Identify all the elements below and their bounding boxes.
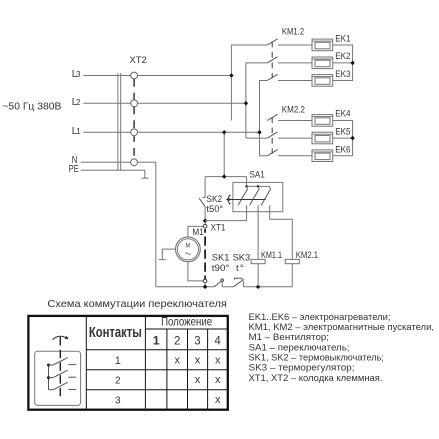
SA1 output lead 1: [205, 205, 247, 220]
table vertical divider switch/contacts: [85, 316, 87, 410]
svg-text:x: x: [215, 394, 221, 406]
svg-text:x: x: [175, 354, 181, 366]
svg-text:Контакты: Контакты: [89, 324, 142, 341]
contactor contact KM1.2-3: [267, 74, 312, 80]
legend text block: [249, 312, 435, 383]
svg-text:1: 1: [115, 355, 121, 367]
wire motor case to earth: [162, 249, 175, 259]
wire riser phase B: [246, 63, 267, 138]
node switch bus dot 2: [47, 376, 50, 379]
wire N: [81, 161, 131, 163]
SA1 input stub: [246, 177, 248, 187]
svg-text:KM1.1: KM1.1: [261, 250, 282, 260]
node rail coils junction: [256, 285, 261, 290]
wire riser phase A: [231, 45, 267, 121]
contactor contact KM2.2-2: [246, 132, 312, 138]
svg-text:EK1: EK1: [335, 34, 350, 44]
svg-text:2: 2: [174, 336, 180, 348]
svg-text:KM1, KM2 – электромагнитные: KM1, KM2 – электромагнитные пускатели,: [249, 322, 435, 332]
node L1-riser junction: [257, 130, 261, 135]
contactor contact KM1.2-2: [267, 57, 312, 63]
thermal switch SK1: [214, 279, 223, 287]
wire rail SK1-SK3: [222, 286, 233, 288]
svg-text:KM2.1: KM2.1: [296, 250, 318, 260]
svg-text:SK3: SK3: [233, 252, 251, 263]
svg-text:M1: M1: [192, 227, 203, 238]
contactor contact KM2.2-3: [260, 150, 313, 156]
PE earth bar: [141, 177, 148, 179]
wire rail right: [243, 286, 292, 288]
terminal block XT1 dashed link: [204, 229, 206, 279]
wire control top: [205, 176, 247, 178]
svg-text:XT2: XT2: [129, 55, 146, 66]
SA1 output lead 3: [270, 205, 293, 259]
wire bottom rail left: [156, 286, 214, 288]
SA1 common bus: [247, 186, 270, 188]
svg-text:3: 3: [115, 395, 121, 406]
node EK5 star junction: [350, 136, 354, 141]
wire XT1 bottom to rail: [204, 283, 206, 287]
svg-text:EK4: EK4: [335, 109, 350, 119]
svg-text:XT1, XT2 – колодка клеммная.: XT1, XT2 – колодка клеммная.: [249, 373, 383, 383]
svg-text:3: 3: [76, 70, 81, 79]
svg-text:EK6: EK6: [335, 144, 350, 154]
node control top junction: [222, 174, 226, 179]
wire star bus EK1-EK3: [333, 45, 353, 81]
svg-text:t90°: t90°: [212, 263, 230, 274]
svg-text:Положение: Положение: [161, 317, 212, 329]
table vertical divider col2/col3: [187, 329, 189, 410]
table horizontal divider under header: [86, 349, 228, 351]
table vertical divider col1/col2: [166, 329, 168, 410]
KM2.2 mechanical link dashed: [271, 117, 273, 154]
switch cell contact 3: [49, 382, 77, 389]
svg-text:t50°: t50°: [206, 204, 223, 215]
wire KM1.1 to rail: [257, 264, 259, 287]
svg-text:EK2: EK2: [335, 51, 350, 61]
table horizontal divider under Положение: [145, 328, 227, 330]
terminal XT2-3: [131, 129, 138, 136]
switch cell link dashed: [59, 337, 61, 398]
svg-text:SK1: SK1: [212, 252, 230, 263]
terminal XT2-4: [131, 159, 138, 166]
terminal XT1 top: [203, 224, 207, 228]
motor M1: [176, 237, 201, 262]
svg-text:PE: PE: [69, 164, 79, 175]
svg-text:4: 4: [214, 335, 221, 347]
heater EK3: [312, 75, 333, 87]
svg-text:3: 3: [194, 335, 200, 347]
node EK2 star junction: [350, 61, 354, 66]
terminal XT1 bottom: [203, 279, 207, 283]
svg-text:KM1.2: KM1.2: [282, 27, 304, 37]
svg-text:SK1, SK2 – термовыключатель;: SK1, SK2 – термовыключатель;: [249, 352, 385, 362]
svg-text:M1 – Вентилятор;: M1 – Вентилятор;: [249, 332, 330, 342]
wire riser phase C: [260, 81, 268, 156]
switch cell contact 1: [49, 358, 77, 365]
table row 2 x marks: [195, 374, 221, 386]
heater EK2: [312, 57, 333, 69]
SA1 contact 1 blade: [238, 188, 248, 205]
wire PE: [81, 170, 145, 178]
svg-text:t°: t°: [236, 263, 245, 274]
node L3-riser junction: [229, 73, 233, 78]
wire motor top to XT1: [188, 226, 203, 237]
KM1.2 mechanical link dashed: [271, 42, 273, 79]
svg-text:M: M: [186, 242, 191, 249]
table vertical divider contacts/positions: [144, 316, 146, 410]
switch cell contact 2: [49, 370, 77, 377]
svg-text:XT1: XT1: [211, 223, 226, 234]
svg-text:EK5: EK5: [335, 127, 350, 137]
node SA1 bus dot 2: [257, 185, 260, 188]
svg-text:2: 2: [76, 98, 81, 107]
node rail XT1 junction: [203, 285, 208, 290]
svg-text:SA1: SA1: [250, 170, 265, 181]
svg-text:1: 1: [153, 334, 160, 348]
SA1 actuator arc: [228, 195, 231, 205]
wire motor bottom to XT1: [188, 262, 203, 281]
motor earth bar: [159, 259, 166, 261]
svg-text:KM2.2: KM2.2: [282, 104, 305, 114]
svg-text:~50 Гц 380В: ~50 Гц 380В: [2, 102, 61, 113]
node SK2-XT1-SA1 junction: [203, 218, 208, 224]
svg-text:SA1 – переключатель;: SA1 – переключатель;: [249, 342, 350, 352]
panel boundary double line: [117, 73, 119, 171]
terminal XT2-1: [131, 72, 138, 79]
heater EK1: [312, 39, 333, 51]
svg-text:x: x: [195, 374, 201, 386]
thermostat SK3: [234, 278, 244, 287]
contactor contact KM2.2-1: [267, 114, 312, 120]
contactor contact KM1.2-1: [267, 39, 312, 45]
svg-text:x: x: [195, 354, 201, 366]
svg-text:EK1..EK6 – электронагревател: EK1..EK6 – электронагреватели;: [249, 312, 391, 322]
wire star bus EK4-EK6: [333, 121, 353, 156]
svg-text:Схема коммутации переключателя: Схема коммутации переключателя: [47, 299, 227, 310]
wire L2: [83, 102, 130, 104]
node L2-riser junction: [244, 101, 248, 106]
table row 1 x marks: [175, 354, 221, 366]
heater EK5: [312, 132, 333, 144]
node SA1 bus dot 1: [245, 185, 248, 188]
heater EK6: [312, 150, 333, 162]
switch SA1 box: [233, 182, 283, 211]
thermal switch SK2: [199, 177, 205, 219]
wire KM2.1 to rail: [291, 264, 293, 287]
terminal block XT2 dashed link: [133, 79, 135, 159]
svg-text:EK3: EK3: [335, 69, 350, 79]
table vertical divider col3/col4: [207, 329, 209, 410]
heater EK4: [312, 115, 333, 127]
svg-text:2: 2: [115, 375, 121, 386]
SA1 actuator shaft with arrow: [226, 198, 266, 201]
terminal XT2-2: [131, 100, 138, 107]
switch cell common bus: [48, 365, 50, 390]
wire L1 control tap: [223, 132, 225, 176]
table horizontal divider row1/row2: [86, 369, 228, 371]
wire L3: [83, 75, 130, 77]
svg-text:x: x: [215, 354, 221, 366]
switch cell actuator arc: [53, 336, 69, 340]
table horizontal divider row2/row3: [86, 389, 228, 391]
SA1 contact 2 blade: [250, 188, 260, 205]
SA1 output lead 2: [257, 205, 259, 259]
wire L1: [83, 131, 130, 133]
node switch bus dot 1: [47, 364, 50, 367]
contactor coil KM2.1: [285, 259, 299, 263]
table outer border: [28, 316, 227, 410]
node L1 tap junction: [222, 130, 226, 135]
SA1 contact 3 blade: [261, 188, 271, 205]
svg-text:x: x: [215, 374, 221, 386]
svg-text:SK3 – терморегулятор;: SK3 – терморегулятор;: [249, 363, 355, 373]
contactor coil KM1.1: [251, 259, 265, 263]
switch cell box: [35, 351, 81, 405]
svg-text:1: 1: [76, 127, 81, 136]
